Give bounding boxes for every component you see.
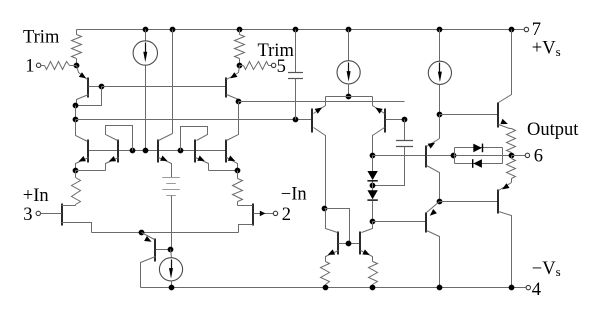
diode D3 (top, right-pointing) — [455, 144, 503, 164]
svg-text:1: 1 — [25, 56, 34, 76]
diode D4 (bottom, left-pointing) — [455, 148, 503, 168]
node dot rail at Q14 — [437, 285, 443, 291]
wire to Q14 base — [373, 221, 426, 223]
node dot base rail x=132 — [130, 148, 136, 154]
svg-text:+In: +In — [23, 186, 49, 206]
node dot rail at R8 — [370, 285, 376, 291]
label -Vs — [532, 259, 561, 279]
pin 1 terminal circle — [36, 63, 40, 67]
wire pin3 to J1 gate — [41, 213, 62, 215]
wire mirror base rail y=150.4 — [89, 150, 227, 152]
node dot rail at I4 — [169, 285, 175, 291]
transistor Q9 (left, emitter up) — [312, 97, 326, 209]
label 1 — [25, 56, 34, 76]
node dot rail at I2 — [346, 27, 352, 33]
svg-text:6: 6 — [534, 147, 543, 167]
node dot 2nd mirror bases — [346, 241, 352, 247]
transistor Q7 (mirror) — [226, 102, 239, 171]
node dot Q13/Q14 node — [437, 199, 443, 205]
resistor R8 (Q12 emitter) — [369, 262, 378, 288]
diode D1 — [367, 156, 377, 181]
node dot rail x=172 — [170, 27, 176, 33]
svg-text:5: 5 — [277, 57, 286, 77]
node dot rail at I3 — [437, 27, 443, 33]
transistor Q4 (mirror, diode-connected) — [106, 126, 133, 171]
current source I1 — [133, 30, 157, 151]
pin 5 terminal circle — [271, 63, 275, 67]
wire D1-D2 link — [372, 182, 374, 191]
resistor R3 (right trim load) — [235, 30, 245, 66]
transistor Q3 (mirror, left) — [76, 120, 89, 171]
wire Q9/Q10 emitter bus — [326, 96, 373, 98]
resistor R9 (output upper) — [507, 129, 516, 156]
label +In — [23, 186, 49, 206]
node dot base rail x=145.3 — [143, 148, 149, 154]
transistor Q14 (driver PNP) — [426, 202, 440, 288]
node dot Q1 collector — [73, 103, 79, 109]
node dot I2 out — [346, 94, 352, 100]
wire top +Vs rail — [77, 29, 525, 31]
node dot right R bottom — [237, 63, 243, 69]
current source I4 (tail) — [159, 250, 182, 288]
node dot Q9 collector node — [322, 206, 328, 212]
label 3 — [23, 205, 32, 225]
node dot diode net left — [451, 153, 457, 159]
svg-text:Trim: Trim — [23, 28, 60, 48]
transistor Q15 (output NPN) — [498, 30, 512, 129]
node dot Q3 emitter — [73, 168, 79, 174]
current source I2 — [337, 30, 360, 97]
pin 4 terminal circle — [526, 285, 530, 289]
resistor R4 (trim pin 5) — [240, 62, 272, 70]
transistor Q16 (output PNP) — [498, 183, 512, 288]
label 5 — [277, 57, 286, 77]
label -In — [281, 185, 307, 205]
pin 2 gate arrow — [254, 211, 274, 217]
wire diode net center — [454, 155, 512, 157]
node dot second-stage y=155.5 — [370, 153, 376, 159]
label Output — [527, 120, 579, 140]
wire source line y=232.2 — [92, 232, 239, 234]
svg-text:4: 4 — [532, 280, 541, 300]
node dot rail at output PNP — [509, 285, 515, 291]
wire second stage to Q13 base — [373, 155, 426, 157]
current source I3 — [428, 30, 451, 115]
wire base-cross bus y=119.8 — [76, 119, 312, 121]
pin 6 terminal circle — [525, 153, 529, 157]
node dot output node — [509, 153, 515, 159]
label 4 — [532, 280, 541, 300]
svg-text:−In: −In — [281, 185, 307, 205]
transistor Q12 (2nd mirror right) — [360, 222, 373, 262]
node dot Q10 base — [402, 117, 408, 123]
JFET J1 (+In) — [62, 204, 92, 233]
wire bottom -Vs rail — [141, 287, 527, 289]
wire to output PNP base — [440, 201, 498, 203]
resistor R7 (Q11 emitter) — [321, 262, 330, 288]
svg-text:2: 2 — [282, 205, 291, 225]
node dot Q1 base — [99, 84, 105, 90]
node dot rail at output — [509, 27, 515, 33]
wire battery to tail node — [171, 196, 173, 250]
svg-text:Output: Output — [527, 120, 579, 140]
diode D2 — [367, 190, 377, 221]
node dot tail node — [168, 247, 174, 253]
wire collector column to mirror — [75, 106, 77, 120]
wire Q13 base through to diodes — [427, 155, 454, 157]
node dot Q2 collector — [236, 99, 242, 105]
node dot diode chain bottom — [370, 219, 376, 225]
node dot base rail x=180.9 — [178, 148, 184, 154]
wire Q11 diode tie — [325, 209, 350, 244]
label Trim right — [258, 41, 295, 61]
resistor R5 (mirror emitters) — [72, 171, 81, 206]
label +Vs — [532, 39, 561, 59]
JFET J2 (-In) — [238, 204, 254, 233]
transistor Q8 (tail bias PNP) — [141, 233, 171, 288]
label 7 — [532, 20, 541, 40]
resistor R1 (left trim load) — [72, 30, 82, 66]
transistor Q11 (2nd mirror left) — [326, 209, 339, 262]
node dot between diodes — [370, 183, 376, 189]
node dot left R bottom — [74, 63, 80, 69]
node dot rail x=295.4 — [293, 27, 299, 33]
pin 2 terminal circle — [273, 211, 277, 215]
battery B1 — [162, 178, 180, 196]
node dot source line — [139, 230, 145, 236]
wire node-B horizontal y=101.3 — [239, 101, 405, 103]
node dot bus at x=295.4 — [293, 117, 299, 123]
pin 7 terminal circle — [524, 27, 528, 31]
wire rail to Q5 collector — [172, 30, 174, 134]
resistor R10 (output lower) — [507, 156, 516, 183]
label 6 — [534, 147, 543, 167]
resistor R2 (trim pin 1) — [41, 62, 77, 70]
pin 6 stub — [512, 155, 526, 157]
node dot I3 out — [437, 112, 443, 118]
label 2 — [282, 205, 291, 225]
wire Q3-Q4 emitter join — [76, 170, 106, 172]
node dot Q7 emitter — [235, 168, 241, 174]
node dot top rail x=239.5 — [237, 27, 243, 33]
transistor Q2 (right trim PNP) — [226, 66, 240, 102]
node dot rail at R7 — [323, 285, 329, 291]
wire I3 column to Q13 — [439, 115, 441, 139]
wire Q1 base-collector tie — [76, 87, 102, 106]
transistor Q10 (right, emitter up) — [373, 97, 405, 156]
label Trim left — [23, 28, 60, 48]
pin 3 terminal circle — [36, 211, 40, 215]
transistor Q5 (mirror) — [158, 134, 173, 178]
wire I3 to output NPN base — [440, 114, 498, 116]
capacitor C1 — [288, 30, 303, 120]
transistor Q6 (mirror, diode-connected) — [181, 127, 209, 171]
svg-text:7: 7 — [532, 20, 541, 40]
wire Q1-Q2 base bus — [102, 86, 227, 88]
transistor Q1 (left trim PNP) — [77, 66, 102, 106]
svg-text:3: 3 — [23, 205, 32, 225]
node dot left of base-cross bus — [73, 117, 79, 123]
resistor R6 (-In drain) — [233, 171, 243, 206]
node dot rail at I1 — [143, 27, 149, 33]
wire Q11-Q12 base link — [339, 243, 361, 245]
capacitor C2 — [373, 120, 414, 186]
wire Q6-Q7 emitter join — [209, 170, 238, 172]
transistor Q13 (driver, emitter up) — [426, 139, 440, 202]
